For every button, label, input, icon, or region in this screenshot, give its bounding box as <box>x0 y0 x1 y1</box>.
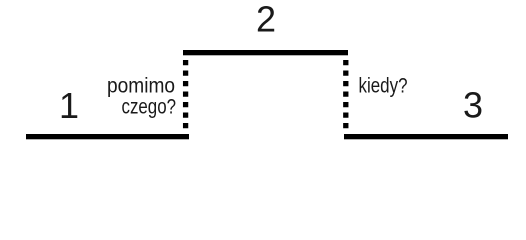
right dotted divider <box>343 60 348 133</box>
svg-text:1: 1 <box>59 85 79 126</box>
segment 2 top line <box>183 50 348 55</box>
segment 3 baseline <box>344 134 508 139</box>
segment 1 baseline <box>26 134 189 139</box>
svg-text:2: 2 <box>256 0 276 40</box>
left dotted divider <box>183 60 188 131</box>
svg-text:3: 3 <box>463 85 483 126</box>
svg-text:pomimo: pomimo <box>107 73 175 97</box>
svg-text:kiedy?: kiedy? <box>359 73 408 97</box>
svg-text:czego?: czego? <box>122 95 177 119</box>
